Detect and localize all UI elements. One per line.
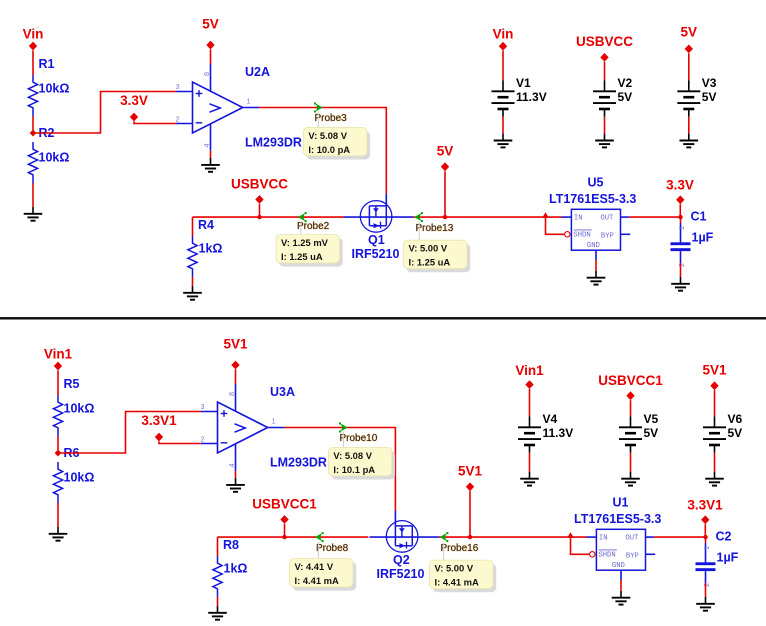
svg-text:Probe13: Probe13 <box>416 223 454 234</box>
wire drain pin stub <box>385 194 387 206</box>
svg-text:Probe8: Probe8 <box>316 543 349 554</box>
svg-text:V6: V6 <box>728 412 743 426</box>
resistor R8 <box>213 556 222 597</box>
wire U5 OUT to 3.3V node <box>629 216 680 218</box>
wire op-amp pin4 to ground <box>235 471 237 478</box>
op-amp U2A <box>193 82 243 133</box>
probe Probe13 <box>414 213 421 221</box>
junction arrow to SHDN <box>567 532 574 538</box>
svg-text:10kΩ: 10kΩ <box>64 402 95 416</box>
svg-text:10kΩ: 10kΩ <box>39 151 70 165</box>
node USBVCC1 net connector <box>280 515 288 524</box>
svg-text:1µF: 1µF <box>692 231 714 245</box>
ground <box>217 606 219 613</box>
wire op-amp output to MOSFET drain <box>284 428 395 511</box>
svg-text:SHDN: SHDN <box>598 552 615 560</box>
wire <box>529 453 531 472</box>
op-amp U2A input pin stubs <box>176 91 193 93</box>
svg-text:2: 2 <box>201 434 205 443</box>
svg-text:U3A: U3A <box>270 385 295 399</box>
probe Probe3 value box <box>307 131 371 160</box>
svg-text:5V: 5V <box>681 25 698 40</box>
svg-text:5V1: 5V1 <box>223 337 248 352</box>
op-amp U3A <box>218 402 268 453</box>
svg-text:IN: IN <box>574 215 583 223</box>
svg-text:1: 1 <box>677 226 686 230</box>
probe Probe8 <box>315 533 322 541</box>
wire <box>688 117 690 134</box>
svg-text:5V: 5V <box>644 426 659 440</box>
ground <box>57 527 59 534</box>
svg-text:C2: C2 <box>716 530 732 544</box>
junction <box>282 535 286 539</box>
svg-text:V: 5.00 V: V: 5.00 V <box>409 243 448 254</box>
wire <box>57 503 59 527</box>
svg-text:I: 4.41 mA: I: 4.41 mA <box>295 575 340 586</box>
node 3.3V net connector <box>676 195 684 204</box>
ground <box>32 207 34 214</box>
wire <box>604 62 606 81</box>
ground <box>502 134 504 141</box>
svg-text:Probe16: Probe16 <box>441 543 479 554</box>
svg-text:I: 1.25 uA: I: 1.25 uA <box>409 257 451 268</box>
svg-text:V: 5.08 V: V: 5.08 V <box>333 450 372 461</box>
divider line between circuits <box>0 317 766 319</box>
transistor Q1 <box>360 201 392 233</box>
svg-text:8: 8 <box>202 72 211 76</box>
op-amp power pin stubs <box>235 384 237 411</box>
svg-text:10kΩ: 10kΩ <box>39 82 70 96</box>
battery V1 <box>502 80 504 91</box>
junction arrow to SHDN <box>542 212 549 218</box>
wire <box>502 51 504 81</box>
node USBVCC net connector <box>255 195 263 204</box>
wire <box>714 390 716 416</box>
svg-text:8: 8 <box>227 392 236 396</box>
ground <box>630 472 632 479</box>
svg-text:11.3V: 11.3V <box>543 426 574 440</box>
probe Probe16 <box>440 533 447 541</box>
svg-text:BYP: BYP <box>626 552 639 560</box>
ground <box>529 472 531 479</box>
node Vin1 net connector <box>54 362 62 371</box>
svg-text:11.3V: 11.3V <box>516 90 547 104</box>
node Vin net connector <box>499 42 507 51</box>
ground <box>235 478 237 485</box>
voltage regulator U1 LT1761ES5-3.3 <box>596 529 645 570</box>
svg-text:IRF5210: IRF5210 <box>352 247 400 261</box>
svg-text:Probe3: Probe3 <box>315 113 348 124</box>
main rail wire right of Q2 <box>439 536 587 538</box>
probe Probe13 value box <box>407 244 471 272</box>
wire <box>679 204 681 217</box>
svg-text:U1: U1 <box>613 496 629 510</box>
svg-text:SHDN: SHDN <box>573 232 590 240</box>
svg-text:1: 1 <box>702 546 711 550</box>
svg-text:3.3V1: 3.3V1 <box>687 497 723 512</box>
svg-text:USBVCC: USBVCC <box>576 34 633 49</box>
svg-text:5V1: 5V1 <box>702 363 727 378</box>
svg-text:V: 4.41 V: V: 4.41 V <box>295 561 334 572</box>
wire <box>714 453 716 472</box>
svg-text:V1: V1 <box>516 76 531 90</box>
svg-text:2: 2 <box>702 583 711 587</box>
wire <box>630 453 632 472</box>
wire <box>32 183 34 207</box>
svg-text:IN: IN <box>599 535 608 543</box>
battery V6 <box>714 416 716 427</box>
svg-text:Vin: Vin <box>493 26 514 41</box>
svg-text:1kΩ: 1kΩ <box>224 562 248 576</box>
svg-text:Vin1: Vin1 <box>44 346 73 361</box>
node Vin1 net connector <box>525 380 533 389</box>
wire <box>159 441 201 443</box>
svg-text:C1: C1 <box>691 210 707 224</box>
svg-text:I: 10.0 pA: I: 10.0 pA <box>308 144 350 155</box>
wire <box>680 251 682 263</box>
wire to capacitor C2 <box>705 537 707 543</box>
ground <box>688 134 690 141</box>
probe Probe16 value box <box>433 564 497 593</box>
svg-text:IRF5210: IRF5210 <box>377 567 425 581</box>
resistor R8 branch wire <box>217 537 219 556</box>
svg-text:I: 1.25 uA: I: 1.25 uA <box>281 251 323 262</box>
wire <box>259 204 261 217</box>
svg-text:GND: GND <box>587 242 600 250</box>
wire <box>192 277 194 286</box>
svg-text:LT1761ES5-3.3: LT1761ES5-3.3 <box>549 192 636 206</box>
op-amp power pin stubs <box>210 64 212 91</box>
svg-text:Q1: Q1 <box>368 233 385 247</box>
svg-text:V: 1.25 mV: V: 1.25 mV <box>281 237 329 248</box>
svg-text:U5: U5 <box>588 176 604 190</box>
probe Probe8 value box <box>293 562 357 591</box>
svg-text:1µF: 1µF <box>717 551 739 565</box>
node USBVCC1 net connector <box>626 391 634 400</box>
svg-text:R1: R1 <box>39 57 55 71</box>
wire divider to op-amp + <box>33 92 176 134</box>
main rail wire left <box>193 216 344 218</box>
probe Probe10 value box <box>332 451 396 480</box>
svg-text:4: 4 <box>202 143 211 147</box>
node 5V net connector <box>685 45 693 54</box>
op-amp output pin stub <box>243 107 259 109</box>
wire <box>705 571 707 583</box>
svg-text:V: 5.00 V: V: 5.00 V <box>435 563 474 574</box>
svg-text:GND: GND <box>612 562 625 570</box>
node 3.3V1 net connector <box>701 515 709 524</box>
wire <box>57 436 59 450</box>
svg-text:5V: 5V <box>437 143 454 158</box>
svg-text:1: 1 <box>272 416 276 425</box>
main rail wire right of Q1 <box>413 216 562 218</box>
wire U1 GND to ground <box>620 580 622 591</box>
ground <box>705 597 707 604</box>
svg-text:5V: 5V <box>618 90 633 104</box>
node 3.3V net connector <box>130 113 138 122</box>
ground <box>595 271 597 278</box>
svg-text:USBVCC1: USBVCC1 <box>252 497 317 512</box>
wire op-amp output to MOSFET drain <box>259 108 386 194</box>
svg-text:I: 10.1 pA: I: 10.1 pA <box>333 464 375 475</box>
wire U5 GND to ground <box>595 260 597 271</box>
wire <box>529 389 531 416</box>
svg-text:3.3V: 3.3V <box>666 177 694 192</box>
capacitor C1 <box>671 242 691 245</box>
wire <box>604 117 606 134</box>
probe Probe10 <box>341 424 348 432</box>
svg-text:LM293DR: LM293DR <box>270 456 327 470</box>
svg-text:Vin: Vin <box>23 26 44 41</box>
svg-text:OUT: OUT <box>625 535 639 543</box>
battery V2 <box>604 80 606 91</box>
junction <box>443 215 447 219</box>
wire <box>704 524 706 537</box>
wire op-amp pin4 to ground <box>210 151 212 158</box>
svg-text:R4: R4 <box>198 218 214 232</box>
svg-text:1kΩ: 1kΩ <box>199 242 223 256</box>
node 3.3V1 net connector <box>155 433 163 442</box>
svg-text:3.3V: 3.3V <box>120 93 148 108</box>
wire <box>444 171 446 217</box>
wire <box>217 597 219 606</box>
svg-text:5V: 5V <box>702 90 717 104</box>
SHDN pin bubble <box>590 552 595 557</box>
wire <box>32 116 34 130</box>
ground <box>604 134 606 141</box>
voltage regulator U5 LT1761ES5-3.3 <box>571 209 620 250</box>
junction node R2 <box>30 130 37 137</box>
svg-text:USBVCC1: USBVCC1 <box>598 373 663 388</box>
ground <box>620 591 622 598</box>
node 5V1 net connector <box>710 381 718 390</box>
probe Probe3 <box>316 104 323 112</box>
svg-text:LT1761ES5-3.3: LT1761ES5-3.3 <box>574 512 661 526</box>
wire <box>134 121 176 123</box>
svg-text:Probe2: Probe2 <box>297 221 330 232</box>
battery V4 <box>529 416 531 427</box>
op-amp U3A input pin stubs <box>201 411 218 413</box>
junction <box>257 215 261 219</box>
wire <box>57 370 59 395</box>
wire <box>469 491 471 537</box>
ground <box>210 158 212 165</box>
probe Probe2 value box <box>279 238 343 267</box>
node 5V net connector <box>441 162 449 171</box>
battery V3 <box>688 80 690 91</box>
svg-text:3.3V1: 3.3V1 <box>141 413 177 428</box>
main rail wire left <box>218 536 369 538</box>
svg-text:2: 2 <box>677 263 686 267</box>
wire U1 OUT to 3.3V1 node <box>654 536 705 538</box>
resistor R1 <box>28 75 37 116</box>
svg-text:3: 3 <box>201 402 205 411</box>
svg-text:V4: V4 <box>543 412 558 426</box>
wire to capacitor C1 <box>680 217 682 223</box>
wire <box>688 53 690 80</box>
wire <box>630 400 632 416</box>
svg-text:I: 4.41 mA: I: 4.41 mA <box>435 577 480 588</box>
junction <box>703 535 707 539</box>
SHDN pin bubble <box>565 232 570 237</box>
capacitor C2 <box>696 562 716 565</box>
wire drain pin stub <box>394 511 396 526</box>
svg-text:5V: 5V <box>728 426 743 440</box>
svg-text:OUT: OUT <box>600 215 614 223</box>
junction <box>468 535 472 539</box>
probe Probe2 <box>298 213 305 221</box>
svg-text:R5: R5 <box>64 377 80 391</box>
svg-text:BYP: BYP <box>601 232 614 240</box>
svg-text:R8: R8 <box>223 538 239 552</box>
node net connector <box>206 41 214 50</box>
battery V5 <box>630 416 632 427</box>
wire <box>32 50 34 75</box>
svg-text:2: 2 <box>176 114 180 123</box>
wire <box>284 524 286 537</box>
svg-text:4: 4 <box>227 463 236 467</box>
svg-text:Q2: Q2 <box>393 553 410 567</box>
wire divider to op-amp + <box>58 412 201 454</box>
resistor R5 <box>53 395 62 436</box>
svg-text:U2A: U2A <box>245 65 270 79</box>
svg-text:Probe10: Probe10 <box>340 433 378 444</box>
svg-text:USBVCC: USBVCC <box>231 177 288 192</box>
svg-text:V: 5.08 V: V: 5.08 V <box>308 130 347 141</box>
svg-text:5V1: 5V1 <box>458 463 483 478</box>
wire <box>210 49 212 64</box>
op-amp output pin stub <box>268 427 284 429</box>
transistor Q2 <box>386 521 418 553</box>
node 5V1 net connector <box>466 482 474 491</box>
node net connector <box>231 361 239 370</box>
ground <box>680 277 682 284</box>
svg-text:V3: V3 <box>702 76 717 90</box>
node Vin net connector <box>29 42 37 51</box>
node USBVCC net connector <box>600 53 608 62</box>
resistor R4 <box>188 236 197 277</box>
ground <box>192 286 194 293</box>
wire <box>235 369 237 384</box>
svg-text:1: 1 <box>247 96 251 105</box>
svg-text:10kΩ: 10kΩ <box>64 471 95 485</box>
junction <box>678 215 682 219</box>
svg-text:5V: 5V <box>202 17 219 32</box>
resistor R4 branch wire <box>192 217 194 236</box>
svg-text:3: 3 <box>176 82 180 91</box>
junction node R6 <box>55 450 62 457</box>
svg-text:Vin1: Vin1 <box>515 363 544 378</box>
wire SHDN branch <box>571 537 590 554</box>
svg-text:V5: V5 <box>644 412 659 426</box>
wire <box>502 117 504 134</box>
ground <box>714 472 716 479</box>
svg-text:V2: V2 <box>618 76 633 90</box>
svg-text:LM293DR: LM293DR <box>245 136 302 150</box>
wire SHDN branch <box>546 217 565 234</box>
